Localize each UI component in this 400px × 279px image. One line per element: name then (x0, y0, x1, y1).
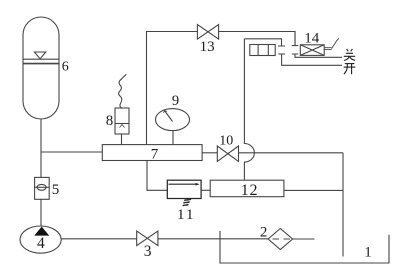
pump 4 (20, 226, 61, 253)
throttle 11 (167, 180, 201, 198)
pressure gauge 9 (156, 109, 190, 131)
valve 14 bottom-right port to 关 line (292, 54, 342, 57)
svg-text:3: 3 (144, 243, 152, 260)
valve 14 top-left port (244, 39, 285, 46)
wire valve 3 to strainer 2 (158, 238, 268, 240)
label 关 (close) (344, 49, 355, 61)
accumulator 6 (23, 17, 59, 119)
wire 12 to tank pipe (284, 189, 343, 191)
wire pilot line down with hop over valve-10 line (244, 39, 254, 180)
svg-text:10: 10 (219, 134, 233, 149)
wire valve 13 right to valve 14 (219, 32, 295, 46)
valve 14 lever (324, 39, 339, 50)
svg-text:6: 6 (62, 60, 69, 75)
svg-text:9: 9 (172, 93, 179, 109)
wire strainer into tank (293, 238, 315, 240)
svg-text:7: 7 (151, 147, 159, 163)
wire pump to valve 3 (61, 238, 137, 240)
wire block 7 to valve 10 (202, 152, 217, 154)
valve 3 (137, 231, 158, 246)
svg-text:4: 4 (37, 235, 45, 252)
svg-text:8: 8 (106, 113, 114, 129)
valve 14 pilot boxes (250, 45, 275, 56)
leader squiggle for 11 (183, 199, 191, 206)
component 12 (210, 180, 284, 197)
svg-text:11: 11 (177, 207, 195, 223)
tank return pipe (342, 153, 344, 257)
strainer 2 (268, 229, 293, 250)
valve 13 (197, 25, 218, 40)
manifold block 7 (102, 145, 202, 161)
valve 14 closed position box (300, 45, 324, 56)
wire 5 to pump (40, 199, 42, 226)
svg-text:1: 1 (364, 245, 372, 261)
svg-text:14: 14 (304, 31, 320, 47)
wire 11 to 12 (201, 189, 210, 191)
wire block bottom to throttle 11 (147, 161, 167, 191)
wire 8 to block (121, 134, 123, 145)
wire branch to block 7 (41, 151, 102, 153)
tank 1 (220, 231, 389, 263)
svg-text:12: 12 (241, 182, 259, 199)
valve 10 (217, 146, 238, 161)
check valve 5 (35, 177, 50, 199)
valve 14 top-right port (292, 32, 298, 46)
svg-text:5: 5 (52, 182, 60, 198)
wire valve 10 to tank pipe (239, 152, 344, 154)
svg-text:13: 13 (200, 39, 215, 55)
wire valve 13 left leg down to block (147, 32, 198, 145)
label 开 (open) (344, 64, 356, 75)
relief valve 8 (115, 74, 129, 134)
valve 14 bottom-left port to 开 line (278, 54, 342, 65)
wire 9 to block (172, 131, 174, 145)
svg-text:2: 2 (260, 224, 268, 240)
wire accumulator stem (40, 119, 42, 177)
